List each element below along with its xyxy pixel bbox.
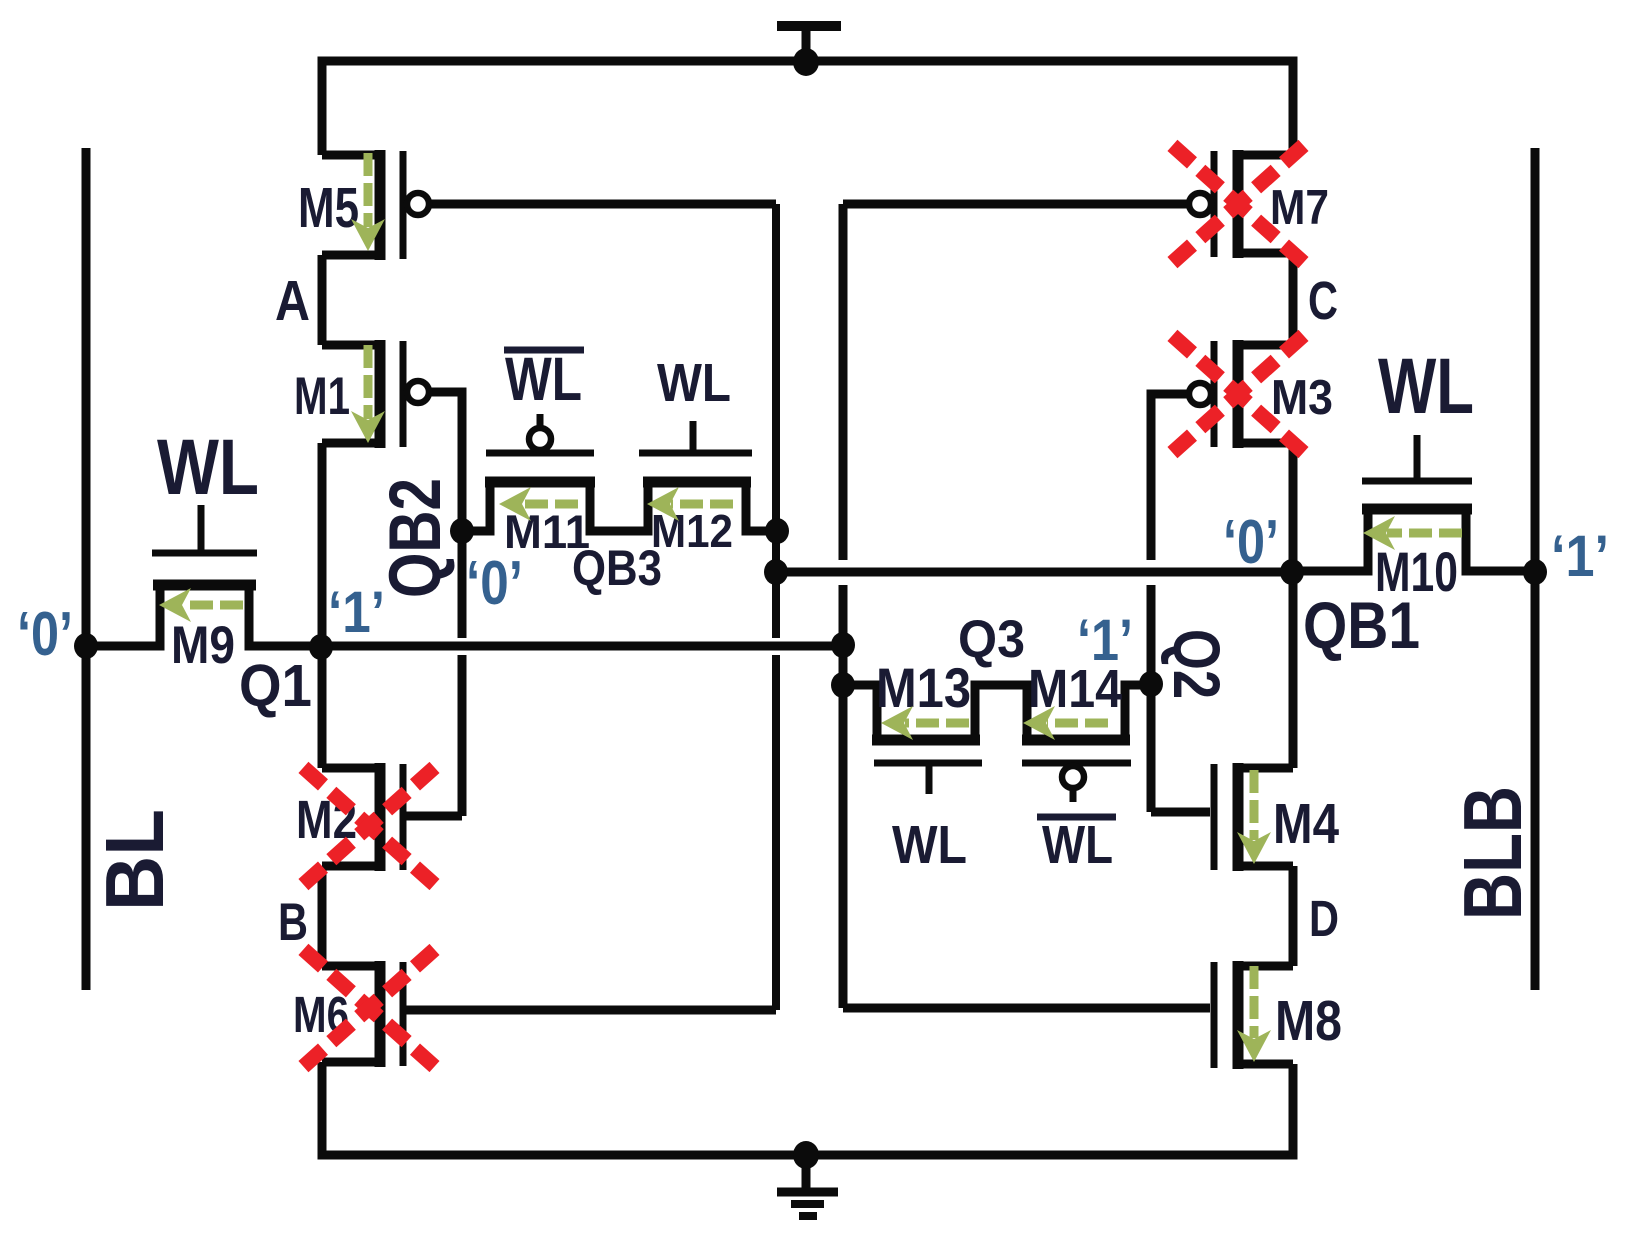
svg-text:WL: WL: [892, 815, 967, 875]
junction BL-M9: [74, 633, 98, 659]
fault cross on M7: [1172, 145, 1304, 263]
svg-text:BL: BL: [88, 809, 181, 911]
transistor M9 (NMOS pass gate): [86, 505, 321, 675]
svg-text:WL: WL: [1042, 815, 1113, 875]
wire M1 gate to QB2: [429, 392, 462, 531]
wire M3 drain to QB1: [1289, 443, 1298, 572]
label WL-bar at M11: [504, 345, 584, 413]
svg-text:M5: M5: [298, 176, 359, 240]
wire M8 gate lead: [843, 1004, 1210, 1013]
svg-text:M3: M3: [1271, 371, 1333, 425]
transistor M1 (PMOS): [294, 340, 429, 448]
junction node Q1: [309, 634, 333, 660]
svg-text:M8: M8: [1275, 989, 1342, 1053]
svg-text:BLB: BLB: [1446, 786, 1539, 920]
ground rail: [322, 1062, 1293, 1155]
fault cross on M3: [1172, 335, 1304, 453]
svg-text:QB2: QB2: [375, 478, 456, 598]
wire Q2 to M4 gate: [1151, 585, 1210, 812]
junction M12 drain: [765, 518, 789, 544]
wire QB1 feedback column: [772, 204, 780, 1010]
svg-text:WL: WL: [657, 353, 731, 413]
svg-text:WL: WL: [1378, 341, 1474, 430]
current arrow in M10: [1363, 516, 1462, 550]
transistor M13 (NMOS feedback): [843, 656, 1023, 794]
wire Q1 to M2 source: [318, 646, 327, 768]
wire QB2 to M2 gate: [405, 531, 462, 816]
VDD power symbol: [777, 26, 841, 61]
transistor M6 (NMOS): [293, 961, 403, 1067]
wire M7 gate lead: [843, 200, 1188, 209]
wire M3 gate to Q2: [1151, 394, 1188, 560]
junction QB1 line start: [764, 559, 788, 585]
svg-text:M1: M1: [294, 367, 350, 426]
bit line BL: [82, 148, 91, 990]
transistor M8 (NMOS): [1214, 961, 1342, 1069]
transistor M3 (PMOS): [1189, 340, 1333, 448]
wire node C: [1289, 253, 1298, 345]
fault cross on M6: [303, 949, 435, 1067]
svg-text:C: C: [1308, 271, 1338, 331]
wire M1 drain to Q1: [318, 443, 327, 646]
transistor M4 (NMOS): [1214, 763, 1339, 871]
label WL-bar at M14: [1037, 815, 1116, 875]
svg-text:‘0’: ‘0’: [466, 549, 523, 618]
svg-text:M4: M4: [1273, 792, 1339, 856]
svg-text:QB1: QB1: [1303, 588, 1420, 662]
svg-text:D: D: [1309, 890, 1339, 947]
junction M13 source: [831, 672, 855, 698]
current arrow in M9: [159, 588, 243, 622]
current arrow in M5: [351, 153, 385, 251]
svg-text:‘1’: ‘1’: [1077, 608, 1133, 673]
ground symbol: [777, 1155, 838, 1216]
svg-text:Q2: Q2: [1160, 629, 1234, 699]
wire net Q1: [321, 642, 843, 651]
svg-text:QB3: QB3: [572, 540, 662, 596]
svg-text:M12: M12: [651, 505, 733, 557]
current arrow in M11: [499, 487, 578, 521]
current arrow in M14: [1023, 706, 1108, 740]
transistor M14 (PMOS feedback): [1022, 659, 1151, 802]
transistor M2 (NMOS): [296, 763, 403, 871]
svg-text:Q3: Q3: [958, 610, 1025, 669]
svg-text:‘0’: ‘0’: [17, 600, 73, 669]
transistor M7 (PMOS): [1189, 150, 1329, 258]
svg-text:Q1: Q1: [239, 653, 312, 719]
transistor M11 (PMOS feedback): [462, 414, 644, 558]
wire net QB1: [776, 568, 1292, 577]
svg-text:‘1’: ‘1’: [1551, 524, 1609, 589]
bit line BLB: [1531, 148, 1540, 990]
current arrow in M1: [351, 345, 385, 443]
junction node QB1: [1280, 559, 1304, 585]
transistor M10 (NMOS pass gate): [1292, 435, 1535, 603]
current arrow in M4: [1237, 770, 1271, 864]
svg-text:‘0’: ‘0’: [1223, 508, 1279, 577]
junction VDD rail: [793, 48, 819, 76]
svg-text:M13: M13: [876, 656, 971, 719]
svg-text:B: B: [278, 893, 308, 952]
wire QB1 to M4 source: [1289, 572, 1298, 768]
VDD rail: [322, 61, 1293, 155]
wire Q1 feedback column: [839, 204, 848, 1008]
current arrow in M8: [1237, 966, 1271, 1062]
junction Q2-M14: [1139, 671, 1163, 697]
wire node A: [318, 255, 327, 345]
current arrow in M13: [881, 706, 969, 740]
junction ground rail: [793, 1141, 819, 1169]
transistor M12 (NMOS feedback): [639, 421, 776, 557]
svg-text:A: A: [275, 269, 310, 333]
junction BLB-M10: [1523, 559, 1547, 585]
current arrow in M12: [647, 487, 733, 521]
fault cross on M2: [303, 767, 435, 885]
junction Q1 line end: [831, 632, 855, 658]
wire M6 gate lead: [405, 1006, 776, 1015]
svg-text:M7: M7: [1270, 181, 1329, 235]
wire node B: [318, 866, 327, 966]
junction QB2-M11: [450, 518, 474, 544]
wire M5 gate lead: [429, 200, 776, 209]
wire node D: [1289, 866, 1298, 966]
svg-text:WL: WL: [157, 422, 259, 511]
transistor M5 (PMOS): [298, 150, 429, 260]
svg-text:M9: M9: [171, 616, 235, 675]
svg-text:WL: WL: [505, 345, 582, 413]
